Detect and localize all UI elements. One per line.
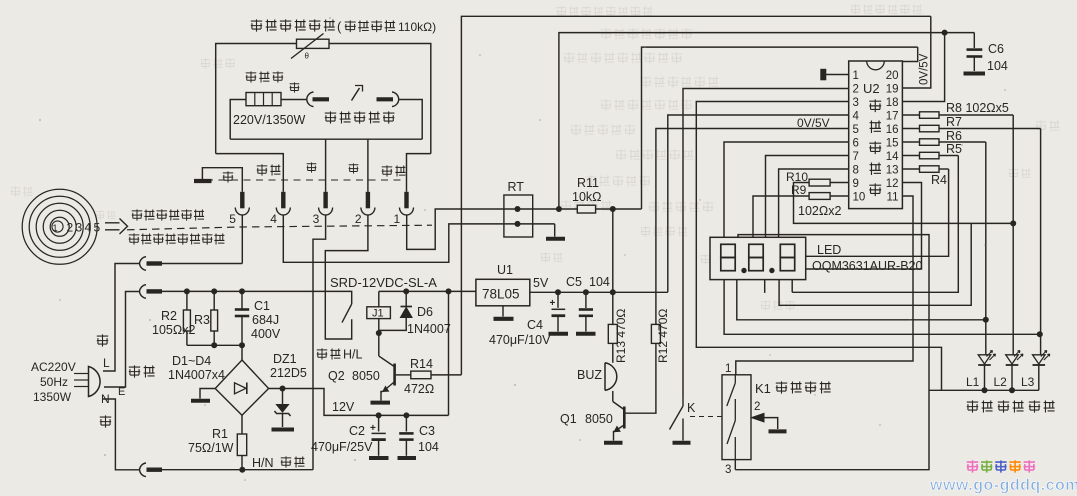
svg-text:1: 1: [725, 363, 731, 375]
wire U2 pin12 to display right-side b: [806, 183, 922, 270]
mechanical link dashes K to K1: [690, 416, 722, 418]
svg-text:16: 16: [886, 124, 899, 136]
svg-text:BUZ: BUZ: [577, 368, 602, 382]
svg-text:D1~D4: D1~D4: [172, 354, 211, 368]
K1 wiper arrow pin 2: [752, 413, 765, 422]
svg-text:470μF/10V: 470μF/10V: [489, 333, 551, 347]
svg-text:2: 2: [355, 212, 362, 226]
svg-text:2: 2: [67, 221, 74, 235]
big arrow symbol: [105, 219, 128, 235]
svg-text:4: 4: [85, 221, 92, 235]
svg-text:C5: C5: [566, 275, 582, 289]
resistor R6: [902, 141, 919, 143]
svg-text:104: 104: [418, 440, 439, 454]
svg-text:470μF/25V: 470μF/25V: [311, 440, 373, 454]
svg-text:50Hz: 50Hz: [40, 375, 68, 389]
resistor R14 472Ω base resistor: [396, 374, 411, 376]
svg-text:75Ω/1W: 75Ω/1W: [188, 441, 234, 455]
transistor Q1 8050 buzzer driver: [613, 402, 624, 410]
wire pin2 down to relay lower contact: [325, 215, 368, 339]
display decimal point dp1: [741, 268, 746, 273]
svg-text:19: 19: [886, 83, 899, 95]
svg-text:H/N: H/N: [252, 456, 274, 470]
wire 5V riser down to 5V line: [612, 209, 614, 292]
mains wire contact2 to relay contact (dropper feed): [162, 291, 352, 304]
wire display bottom pin to bus riser (y305): [779, 223, 971, 305]
svg-text:5: 5: [853, 124, 859, 136]
wire R12 bottom to Q1 base: [626, 343, 656, 413]
ground bar (C4): [549, 332, 569, 336]
LED L1: [978, 355, 991, 364]
svg-text:L2: L2: [994, 375, 1008, 389]
svg-text:3: 3: [313, 212, 320, 226]
wire U2 pin6 to display top pin a: [724, 142, 849, 237]
ground bar (U1): [494, 317, 514, 321]
node rail C / C6 junction: [942, 30, 948, 36]
svg-text:J1: J1: [372, 307, 384, 319]
switch K (mode button): [682, 396, 684, 407]
svg-text:R3: R3: [194, 313, 210, 327]
svg-text:RT: RT: [508, 180, 525, 194]
wire R7 to LED L3 anode: [1040, 129, 1042, 355]
svg-text:104: 104: [589, 275, 610, 289]
spiral hotplate symbol with terminals 1-5: [50, 217, 69, 236]
resistor R8 102Ωx5: [902, 114, 919, 116]
separator dashed line kettle/panel: [127, 225, 432, 230]
node R2 top: [184, 288, 190, 294]
svg-text:L3: L3: [1021, 375, 1035, 389]
resistor R9 102Ω: [830, 195, 849, 197]
wire U2 pin7 to display top pin d: [766, 156, 849, 238]
svg-text:220V/1350W: 220V/1350W: [233, 113, 305, 127]
wire U2 pin3 to LED cathode bus: [696, 102, 941, 391]
svg-text:684J: 684J: [252, 313, 279, 327]
svg-text:C3: C3: [419, 424, 435, 438]
svg-text:5: 5: [229, 212, 236, 226]
svg-text:U2: U2: [863, 81, 880, 96]
svg-text:1: 1: [394, 212, 401, 226]
wire R5 to display bottom pin g: [792, 156, 958, 293]
mains contact 1 (L) socket+pin: [140, 257, 147, 271]
U2 pin1 crystal-bar terminal: [826, 74, 849, 76]
node R11/5V junction: [610, 206, 616, 212]
node R3 bottom: [211, 342, 217, 348]
node R11 junction riser to rail C: [556, 206, 562, 212]
wire display bottom pin to R7 net (y334): [724, 280, 1040, 335]
svg-text:C1: C1: [254, 299, 270, 313]
ground bar (bridge AC2): [191, 399, 210, 403]
svg-text:5: 5: [94, 221, 101, 235]
label 控制面板内部电路 (control panel internal circuit): [129, 233, 225, 244]
capacitor C3 104: [405, 415, 407, 431]
svg-text:5V: 5V: [533, 276, 549, 290]
ground bar (C6): [964, 72, 986, 76]
svg-text:SRD-12VDC-SL-A: SRD-12VDC-SL-A: [330, 275, 437, 290]
svg-text:472Ω: 472Ω: [404, 382, 434, 396]
svg-text:78L05: 78L05: [482, 287, 520, 302]
wire contact2 left to plug E (黄绿): [104, 292, 140, 388]
node junction R1-bottom on N rail: [239, 467, 245, 473]
label 白: [349, 163, 359, 173]
svg-text:OQM3631AUR-B20: OQM3631AUR-B20: [812, 259, 923, 273]
svg-text:18: 18: [886, 97, 899, 109]
svg-text:R12 470Ω: R12 470Ω: [656, 309, 670, 363]
svg-text:8050: 8050: [352, 369, 380, 383]
wire pin4 to RT-B run: [283, 215, 554, 262]
svg-text:1: 1: [853, 70, 859, 82]
label 细蓝: [382, 165, 406, 176]
watermark 广电电器网: [967, 460, 978, 472]
node C4 tap: [555, 289, 561, 295]
svg-text:212D5: 212D5: [270, 366, 307, 380]
wire H/N riser from pin3: [313, 215, 326, 470]
zener DZ1 212D5: [282, 389, 284, 405]
wire U1 ground pin: [502, 306, 504, 317]
node R7/y334 junction: [1037, 331, 1043, 337]
node 5V line R13 tap: [610, 289, 616, 295]
kettle connector pins 5-1 (bold pin bars with sockets): [240, 192, 244, 209]
svg-text:3: 3: [725, 464, 731, 476]
ground bar (K): [673, 441, 691, 445]
mains contact 3 (N) socket+pin: [140, 463, 147, 477]
wire R8 to LED L2 anode: [1012, 115, 1014, 355]
svg-text:K1: K1: [755, 381, 771, 396]
thermostat switch 壶底温控器 (kettle-bottom thermostat): [307, 92, 314, 107]
scan speckles: [82, 227, 84, 229]
wire J1 bottom to Q2 collector node: [378, 319, 380, 356]
wire-bundle dashed line across connector: [206, 179, 406, 181]
capacitor C5 104: [585, 292, 587, 308]
wire pin1 to RT-A run: [407, 209, 578, 249]
svg-text:AC220V: AC220V: [31, 360, 76, 374]
svg-text:K: K: [687, 401, 696, 415]
AC plug symbol: [89, 367, 101, 397]
thermistor connector RT box: [504, 195, 533, 237]
svg-text:www.go-gddq.com: www.go-gddq.com: [929, 477, 1077, 494]
svg-text:θ: θ: [305, 52, 310, 61]
kettle inner heater loop wire: [230, 100, 246, 140]
wire display bottom pin to R5 net (y292): [791, 280, 793, 293]
svg-text:1350W: 1350W: [33, 390, 72, 404]
display decimal point dp2: [769, 268, 774, 273]
svg-text:Q1: Q1: [560, 412, 577, 426]
capacitor C6 104: [973, 33, 975, 48]
svg-text:8: 8: [853, 164, 859, 176]
wire RT-B to ground: [554, 224, 556, 237]
LED L3: [1033, 355, 1046, 364]
capacitor C1 684J/400V dropper: [241, 291, 243, 308]
svg-text:R13 470Ω: R13 470Ω: [614, 309, 628, 363]
svg-text:7: 7: [853, 151, 859, 163]
node L1 cathode: [982, 387, 988, 393]
svg-text:R2: R2: [161, 309, 177, 323]
svg-text:D6: D6: [417, 305, 433, 319]
svg-text:DZ1: DZ1: [273, 352, 297, 366]
svg-text:12: 12: [886, 178, 899, 190]
wire 5V output line: [530, 291, 668, 293]
wire U2 pin4 to 5V line: [668, 115, 849, 292]
node C3 tap: [403, 412, 409, 418]
svg-text:20: 20: [886, 70, 899, 82]
ground bar (RT-B): [546, 237, 565, 241]
LED display OQM3631AUR-B20 3-digit: [710, 237, 806, 279]
svg-text:L: L: [103, 356, 110, 370]
kettle plate terminal bar: [194, 179, 212, 183]
svg-text:10: 10: [853, 191, 866, 203]
mains contact 2 (E) socket+pin: [140, 285, 147, 299]
svg-text:+: +: [550, 298, 556, 309]
label 水壶内部电路 (kettle internal circuit): [132, 209, 204, 220]
label 白 (white wire): [290, 82, 300, 92]
svg-text:N: N: [101, 392, 110, 406]
svg-text:R4: R4: [931, 173, 947, 187]
MCU U2 (label erased) DIP-20: [849, 61, 903, 209]
svg-text:4: 4: [270, 212, 277, 226]
node J1/D6/Q2 junction: [376, 330, 382, 336]
label title 壶内温度探头(常温下约110kΩ): [251, 19, 335, 31]
ground bar (DZ1): [272, 428, 295, 432]
rotary switch K1 调温旋钮 box: [722, 375, 751, 460]
node C1 top: [239, 288, 245, 294]
buzzer BUZ: [612, 343, 614, 362]
svg-text:L1: L1: [966, 375, 980, 389]
ground bar (C5): [576, 332, 596, 336]
bridge rectifier D1~D4 1N4007x4: [215, 360, 268, 415]
svg-text:400V: 400V: [251, 327, 281, 341]
label 黄 (yellow): [223, 171, 234, 182]
wire U2 pin11 to K1 position-1: [736, 196, 913, 375]
svg-text:11: 11: [887, 191, 899, 203]
regulator U1 78L05: [476, 279, 530, 306]
svg-text:U1: U1: [497, 263, 513, 277]
LED L2: [1006, 355, 1019, 364]
svg-text:17: 17: [886, 110, 899, 122]
svg-text:R14: R14: [410, 357, 433, 371]
node R6 display-tap junction: [983, 317, 989, 323]
svg-text:0V/5V: 0V/5V: [919, 53, 931, 85]
svg-text:2: 2: [754, 401, 760, 413]
svg-text:105Ωx2: 105Ωx2: [152, 323, 195, 337]
capacitor C4 470μF/10V: [557, 292, 559, 308]
wire dropper bottom bus to bridge: [187, 345, 242, 360]
svg-text:R7: R7: [946, 115, 962, 129]
node RT pin A: [515, 206, 521, 212]
svg-text:14: 14: [886, 151, 899, 163]
ground bar (Q1 emitter): [604, 441, 623, 445]
wire R14 riser to top rail A (MCU drive): [461, 16, 930, 375]
svg-text:C6: C6: [988, 42, 1004, 56]
svg-text:3: 3: [853, 97, 859, 109]
wire rail B (5V to U2 pin20): [642, 47, 918, 209]
svg-text:+: +: [370, 423, 376, 434]
svg-text:2: 2: [853, 83, 859, 95]
label 细蓝 (thin blue): [257, 164, 281, 175]
resistor R13 470Ω: [612, 292, 614, 324]
node C5 tap: [583, 289, 589, 295]
wire plug N down to contact3: [103, 399, 140, 470]
svg-text:R8 102Ωx5: R8 102Ωx5: [946, 101, 1009, 115]
wire U2 pin20 to rail B (supply): [902, 47, 917, 61]
relay contact blade: [342, 304, 352, 323]
svg-text:1N4007x4: 1N4007x4: [168, 368, 225, 382]
svg-text:1N4007: 1N4007: [407, 322, 451, 336]
svg-text:H/L: H/L: [343, 348, 363, 362]
wire R11 right to 5V riser rail B: [596, 208, 642, 210]
kettle outer thermistor loop wire: [216, 44, 431, 154]
resistor R2 105Ωx2: [186, 291, 188, 310]
wire display bottom pin to R6 net (y320): [737, 280, 986, 320]
svg-text:4: 4: [853, 110, 860, 122]
svg-text:R11: R11: [577, 176, 599, 190]
transistor Q2 8050 relay driver: [379, 356, 394, 367]
svg-text:102Ωx2: 102Ωx2: [798, 204, 841, 218]
resistor R3: [213, 291, 215, 310]
svg-text:C2: C2: [349, 424, 365, 438]
diode D6 1N4007 flyback: [403, 288, 409, 294]
svg-text:10kΩ: 10kΩ: [572, 190, 602, 204]
wire +12V node line to relay coil and U1: [378, 291, 380, 306]
resistor R7: [902, 128, 919, 130]
wire R6 to display/L1 anode: [985, 142, 987, 355]
svg-text:6: 6: [853, 137, 859, 149]
ground bar (C2): [369, 456, 389, 460]
label 棕 (brown): [97, 334, 108, 346]
svg-text:15: 15: [886, 137, 899, 149]
svg-text:104: 104: [987, 59, 1008, 73]
svg-text:110kΩ): 110kΩ): [398, 20, 436, 34]
svg-text:R9: R9: [791, 183, 807, 197]
vertical label 标签已擦掉 (label wiped off): [869, 99, 881, 196]
ghost bleed-through text: [557, 6, 653, 16]
resistor R12 470Ω: [651, 324, 660, 343]
label 黄绿 (yellow-green): [129, 365, 155, 377]
wire contact1 to pin5: [162, 263, 242, 265]
wire U2 pin5 to R12 (buzzer drive): [656, 129, 849, 325]
wire +12V riser from 12V rail: [448, 291, 450, 415]
node R3 top: [211, 288, 217, 294]
wire pin5 yellow lead to kettle plate terminal: [202, 168, 242, 192]
label 白: [307, 162, 317, 172]
node C2 tap: [376, 412, 382, 418]
K1 internal contacts: [734, 375, 736, 383]
wire contact1 left to plug L: [103, 264, 140, 372]
svg-text:8050: 8050: [585, 412, 613, 426]
relay coil J1: [367, 307, 391, 319]
display bottom stub pin: [764, 280, 766, 293]
svg-text:C4: C4: [527, 318, 543, 332]
resistor R4: [902, 168, 919, 170]
wire U2 pin2 to switch K: [683, 89, 849, 396]
resistor R10 102Ω: [830, 182, 849, 184]
wire inner-box taps to pin3 and pin2: [325, 139, 327, 192]
wire U2 pin19 to rail A: [902, 16, 930, 88]
wire R9 to display top pin c: [753, 196, 809, 237]
wire outer-box bottom-left segment to pin4: [216, 154, 284, 192]
wire bridge AC2 to chassis ground: [200, 389, 215, 399]
label 蓝 (blue): [100, 415, 111, 427]
svg-text:LED: LED: [817, 243, 841, 257]
svg-text:12V: 12V: [332, 400, 355, 414]
resistor R5: [902, 155, 919, 157]
node bridge top: [239, 342, 245, 348]
node +12V riser top: [446, 288, 452, 294]
node L2 cathode: [1009, 387, 1015, 393]
wire outer-box bottom-right segment to pin1: [407, 154, 431, 192]
wire U2 pin8 to display top pin e: [779, 169, 849, 237]
svg-text:13: 13: [886, 164, 899, 176]
svg-text:R1: R1: [212, 427, 228, 441]
svg-text:Q2: Q2: [328, 369, 345, 383]
svg-text:1: 1: [52, 223, 57, 234]
capacitor C2 470μF/25V electrolytic: [378, 415, 380, 431]
ground bar (C3): [398, 456, 417, 460]
svg-text:E: E: [118, 386, 125, 398]
svg-text:R6: R6: [946, 129, 962, 143]
label 粗红 H/L: [317, 348, 341, 359]
svg-text:R5: R5: [946, 142, 962, 156]
thermistor RT-probe (in-kettle temperature sensor): [297, 39, 330, 48]
node DZ1 tap: [280, 386, 286, 392]
node RT pin B: [515, 221, 521, 227]
svg-text:3: 3: [76, 221, 83, 235]
node R8/long-bus junction: [1010, 220, 1016, 226]
resistor R11 10kΩ pull-up: [577, 205, 595, 213]
heater element R heating-wire 电热丝 220V/1350W: [246, 93, 281, 106]
wire U2 pin18 to rail C / C6: [902, 33, 944, 102]
svg-text:(: (: [337, 19, 342, 34]
wire R4 to display right-side f: [806, 169, 949, 256]
ground bar (K1 pin2): [769, 429, 787, 433]
wire bridge + output to 12V rail: [269, 389, 449, 416]
labels 自动 手动 保温: [967, 400, 993, 412]
resistor R1 75Ω/1W: [241, 415, 243, 434]
wire display top pin b to common riser: [735, 235, 929, 470]
svg-text:9: 9: [853, 178, 859, 190]
wire LED cathode rail: [929, 389, 1039, 391]
ground bar (Q2 emitter): [371, 401, 391, 405]
wire R10 to long bus line: [794, 183, 1014, 224]
wire H/N bottom rail (粗蓝): [162, 469, 313, 471]
